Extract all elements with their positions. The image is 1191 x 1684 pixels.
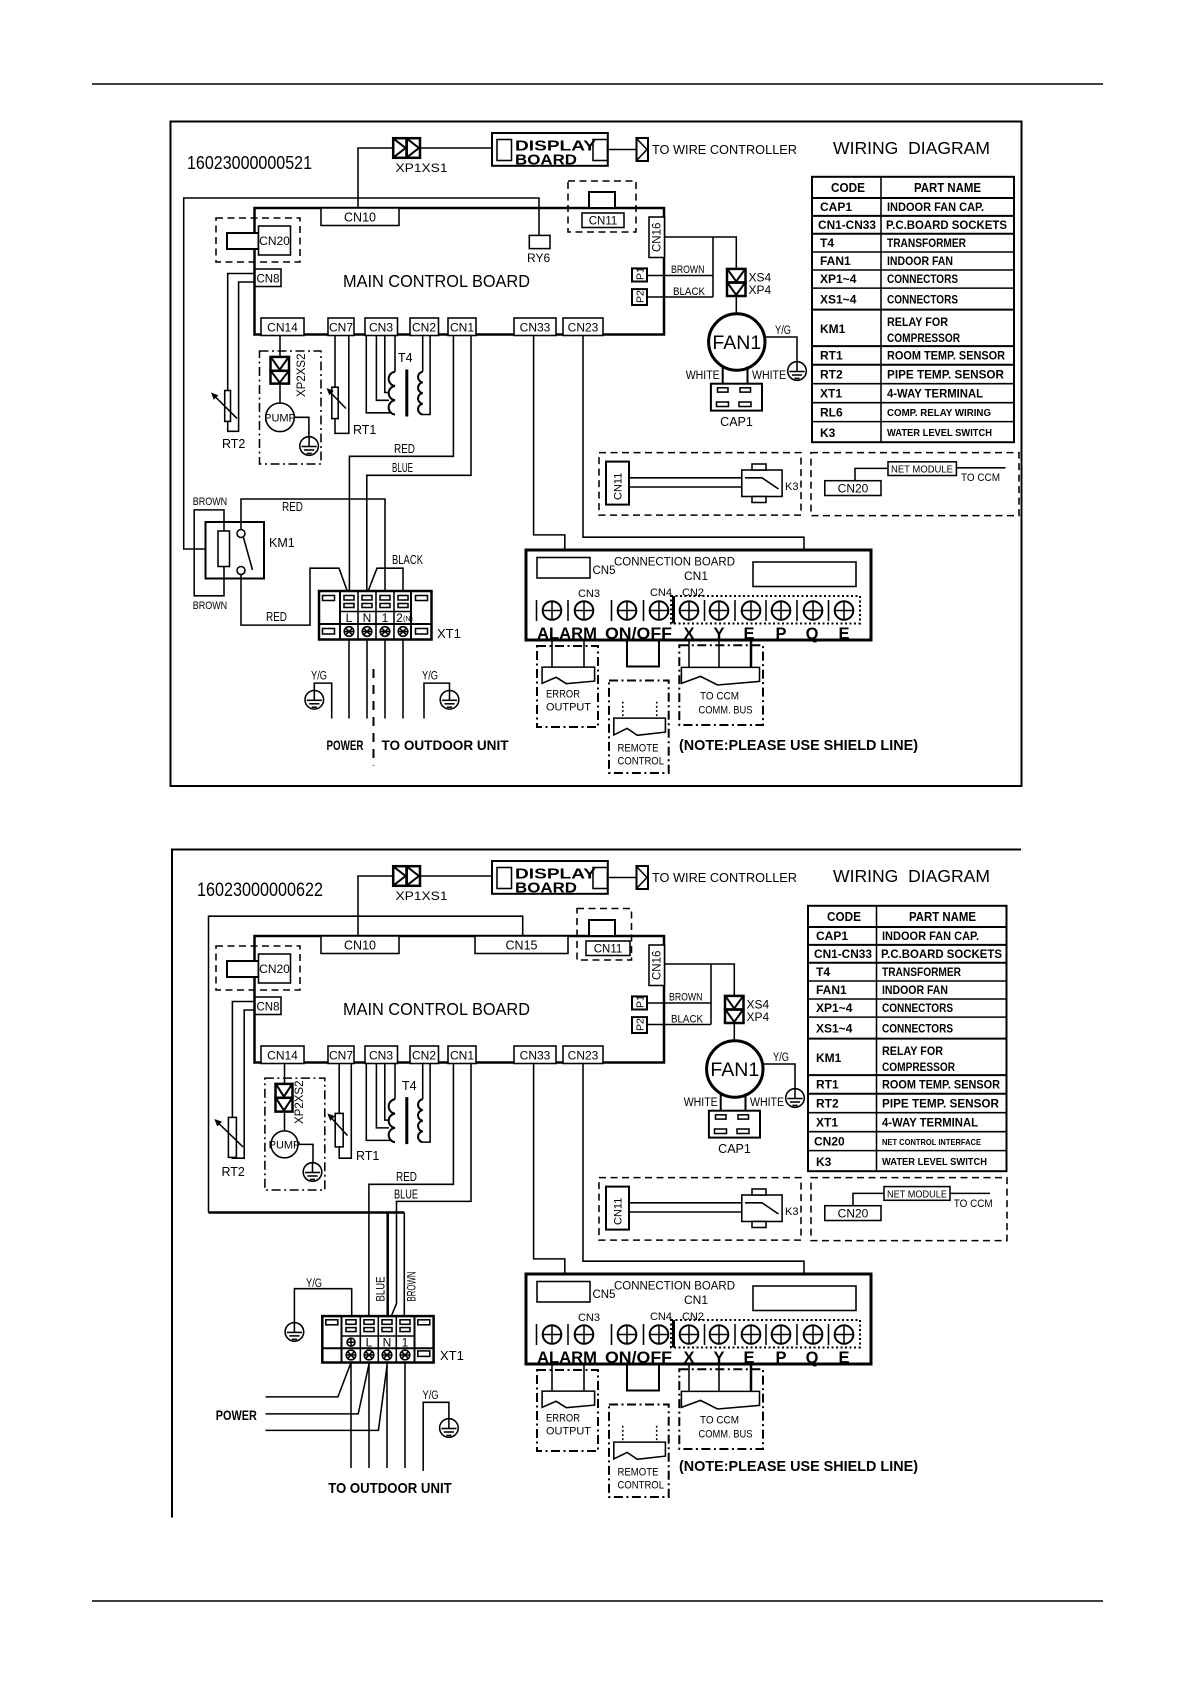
wire CN11 to K3 pin2 (2) xyxy=(629,1211,742,1213)
motor FAN1 (2) xyxy=(707,1041,763,1097)
svg-text:WHITE: WHITE xyxy=(750,1097,784,1109)
svg-text:K3: K3 xyxy=(785,1206,798,1218)
svg-text:P1: P1 xyxy=(635,267,647,280)
terminal Y (2) xyxy=(710,1325,729,1344)
svg-text:CN7: CN7 xyxy=(329,321,353,335)
wire XT1 2(N) down to outdoor unit xyxy=(402,640,404,719)
wire FAN1 to CAP1 pin1 (2) xyxy=(720,1094,722,1116)
socket CN7 xyxy=(328,318,354,336)
svg-text:16023000000521: 16023000000521 xyxy=(187,152,312,173)
svg-text:CONNECTORS: CONNECTORS xyxy=(887,293,958,307)
svg-text:XT1: XT1 xyxy=(820,387,842,401)
svg-text:ON/OFF: ON/OFF xyxy=(605,1349,672,1367)
wire CN23 to connection board CN1 xyxy=(583,336,804,562)
svg-text:CN3: CN3 xyxy=(578,588,600,600)
terminal block XT1 (2) xyxy=(322,1316,464,1363)
svg-text:XS1~4: XS1~4 xyxy=(816,1022,853,1036)
svg-text:P2: P2 xyxy=(635,1018,647,1031)
svg-text:CN2: CN2 xyxy=(412,321,436,335)
svg-text:L: L xyxy=(346,611,353,625)
water level switch K3 (2) xyxy=(742,1189,799,1228)
svg-text:CAP1: CAP1 xyxy=(816,929,848,943)
page bottom rule xyxy=(92,1600,1103,1602)
wire Y/G outdoor earth xyxy=(422,671,450,719)
svg-text:RT2: RT2 xyxy=(222,437,245,451)
net module xyxy=(888,462,956,476)
water level switch K3 xyxy=(742,464,799,503)
svg-text:Y/G: Y/G xyxy=(311,671,327,683)
wire CN16 to XS4 (2) xyxy=(665,964,735,996)
svg-text:KM1: KM1 xyxy=(820,322,846,336)
wire RED CN1 to XT1 terminal L (2) xyxy=(369,1064,454,1328)
wire XT1 N down to power xyxy=(366,640,368,719)
wire BLUE CN1 to XT1 terminal N xyxy=(367,336,471,598)
wire CN16 to XS4 xyxy=(665,237,737,269)
wire XT1 N down to outdoor xyxy=(386,1363,388,1469)
svg-text:MAIN CONTROL BOARD: MAIN CONTROL BOARD xyxy=(343,999,530,1019)
socket CN10 (2) xyxy=(321,936,399,954)
svg-text:XP1~4: XP1~4 xyxy=(820,272,857,286)
svg-text:CN5: CN5 xyxy=(593,565,616,577)
wire E down (shielded) xyxy=(750,640,753,670)
svg-text:NET MODULE: NET MODULE xyxy=(891,464,953,476)
to ccm comm bus box (2) xyxy=(679,1369,763,1449)
svg-text:1: 1 xyxy=(382,611,389,625)
svg-text:TO OUTDOOR UNIT: TO OUTDOOR UNIT xyxy=(328,1480,452,1497)
wire XP1XS1 to display board xyxy=(420,147,492,149)
thermistor RT2 xyxy=(211,391,245,452)
svg-text:4-WAY TERMINAL: 4-WAY TERMINAL xyxy=(882,1116,978,1130)
svg-text:OUTPUT: OUTPUT xyxy=(546,702,591,714)
parts table (bottom diagram) xyxy=(808,906,1007,1171)
svg-text:CODE: CODE xyxy=(831,181,865,195)
svg-text:XP2XS2: XP2XS2 xyxy=(294,1081,306,1124)
svg-text:COMPRESSOR: COMPRESSOR xyxy=(887,331,960,345)
svg-text:PART NAME: PART NAME xyxy=(914,181,981,195)
svg-text:K3: K3 xyxy=(816,1155,832,1169)
socket CN8 (2) xyxy=(255,997,281,1015)
svg-text:Q: Q xyxy=(806,625,819,643)
svg-text:TRANSFORMER: TRANSFORMER xyxy=(887,236,966,250)
wire CN3 pin3 to T4 tap xyxy=(385,336,389,393)
wire ON/OFF-2 down xyxy=(658,640,660,667)
wire XT1 1 down to outdoor xyxy=(404,1363,406,1469)
wire BLUE CN1 to XT1 terminal N (2) xyxy=(387,1064,471,1328)
svg-text:TO OUTDOOR UNIT: TO OUTDOOR UNIT xyxy=(382,737,509,753)
svg-text:RT2: RT2 xyxy=(816,1097,839,1111)
svg-text:INDOOR FAN: INDOOR FAN xyxy=(887,254,953,268)
svg-text:XT1: XT1 xyxy=(816,1116,838,1130)
svg-text:RT2: RT2 xyxy=(820,368,843,382)
wire X down xyxy=(688,640,690,667)
page top rule xyxy=(92,83,1103,85)
wire power PE diagonal xyxy=(266,1363,352,1397)
terminal P (2) xyxy=(772,1325,791,1344)
wire XP2XS2 to PUMP (2) xyxy=(284,1112,286,1132)
svg-text:1: 1 xyxy=(402,1336,409,1350)
wire CN8 to RT2 bottom xyxy=(228,282,255,431)
terminal block XT1 xyxy=(319,591,461,641)
wire N feed to XT1 terminal N xyxy=(386,1213,389,1327)
dash-dot enclosure XP2XS2/PUMP (2) xyxy=(265,1078,325,1190)
to ccm comm bus box (dash-dot) xyxy=(679,645,763,725)
wire CN8 to RT2 top xyxy=(228,274,255,391)
svg-text:BLUE: BLUE xyxy=(376,1276,388,1301)
net module (2) xyxy=(884,1187,950,1201)
diagram 2 border frame (open right/bottom) xyxy=(172,850,1021,1518)
capacitor CAP1 xyxy=(711,384,762,429)
svg-text:CAP1: CAP1 xyxy=(718,1142,751,1156)
wire FAN1 Y/G to ground (2) xyxy=(763,1052,795,1089)
socket CN3 (2) xyxy=(365,1046,398,1064)
transformer T4 xyxy=(389,351,423,417)
socket CN2 xyxy=(410,318,439,336)
wire ON/OFF-1 down (2) xyxy=(626,1364,628,1391)
svg-text:BOARD: BOARD xyxy=(515,152,577,169)
wire CN7 to RT1 top (2) xyxy=(338,1064,340,1114)
svg-text:CN1-CN33: CN1-CN33 xyxy=(814,947,872,961)
svg-text:NET CONTROL INTERFACE: NET CONTROL INTERFACE xyxy=(882,1137,981,1147)
svg-text:ERROR: ERROR xyxy=(546,689,580,701)
svg-text:CN10: CN10 xyxy=(344,939,376,953)
socket CN11 (to K3) xyxy=(606,462,629,505)
wire BROWN power feed to XT1 terminal 1 xyxy=(209,1211,405,1214)
wire Y/G outdoor earth (2) xyxy=(423,1390,449,1471)
svg-text:KM1: KM1 xyxy=(816,1051,842,1065)
terminal ON/OFF-2 (2) xyxy=(650,1325,669,1344)
terminal X xyxy=(680,601,699,620)
socket CN3 xyxy=(365,318,398,336)
wire CN20 to net module xyxy=(855,468,888,480)
svg-text:WATER LEVEL SWITCH: WATER LEVEL SWITCH xyxy=(882,1157,987,1168)
svg-text:TO CCM: TO CCM xyxy=(954,1198,993,1210)
svg-text:CN14: CN14 xyxy=(267,321,298,335)
svg-text:CN11: CN11 xyxy=(594,944,623,956)
socket CN11 (2, dashed plug area) xyxy=(577,909,632,961)
svg-text:CN20: CN20 xyxy=(838,1207,869,1221)
svg-text:CN33: CN33 xyxy=(520,321,551,335)
svg-text:4-WAY TERMINAL: 4-WAY TERMINAL xyxy=(887,387,983,401)
svg-text:TRANSFORMER: TRANSFORMER xyxy=(882,965,961,979)
connector pair XP1XS1 (2) xyxy=(393,866,448,903)
svg-text:KM1: KM1 xyxy=(269,536,295,550)
wire Y down xyxy=(718,640,720,667)
svg-text:BLACK: BLACK xyxy=(671,1014,704,1026)
connection board (2) xyxy=(526,1274,871,1364)
svg-text:ERROR: ERROR xyxy=(546,1413,580,1425)
svg-text:P: P xyxy=(775,1349,786,1367)
parts table (top diagram) xyxy=(812,177,1014,442)
dotted outline terminal group (2) xyxy=(671,1320,860,1348)
terminal ALARM-1 (2) xyxy=(543,1325,562,1344)
wire CN2 pin2 to T4 secondary bottom xyxy=(423,336,430,415)
svg-text:P1: P1 xyxy=(635,995,647,1008)
wire CN11 to K3 pin1 xyxy=(629,477,742,479)
svg-text:16023000000622: 16023000000622 xyxy=(197,880,323,901)
svg-text:CN11: CN11 xyxy=(613,473,625,500)
wire CN3 pin2 to T4 tap (2) xyxy=(376,1064,389,1128)
svg-text:Y/G: Y/G xyxy=(423,1390,439,1402)
socket CN10 xyxy=(321,208,399,226)
net module box (dashed) xyxy=(811,453,1019,516)
svg-text:RED: RED xyxy=(266,610,287,624)
socket CN11 (2, to K3) xyxy=(606,1187,629,1230)
socket CN14 xyxy=(261,318,304,336)
svg-text:K3: K3 xyxy=(785,481,798,493)
ground (power side) xyxy=(305,691,324,710)
svg-text:ALARM: ALARM xyxy=(537,1349,597,1367)
wire CN33 to CN5 xyxy=(534,336,565,558)
svg-text:CN11: CN11 xyxy=(589,216,618,228)
svg-text:RELAY FOR: RELAY FOR xyxy=(882,1044,943,1058)
wire ALARM-1 down (2) xyxy=(551,1364,553,1391)
connector to wire controller (2) xyxy=(637,866,798,889)
terminal E2 (2) xyxy=(835,1325,854,1344)
wire XP1XS1 to CN10 (2) xyxy=(358,876,393,937)
socket P1 xyxy=(632,267,647,282)
ground (pump 2) xyxy=(303,1163,322,1182)
svg-text:RELAY FOR: RELAY FOR xyxy=(887,315,948,329)
svg-text:CAP1: CAP1 xyxy=(720,415,753,429)
svg-text:RT2: RT2 xyxy=(222,1165,245,1179)
wire CN15 left routing to XT1 xyxy=(209,916,523,1212)
motor PUMP xyxy=(264,403,296,432)
wire FAN1 to CAP1 pin2 (2) xyxy=(745,1094,747,1116)
svg-text:TO CCM: TO CCM xyxy=(700,1415,739,1427)
wire E down (2) xyxy=(750,1364,753,1394)
svg-text:XP4: XP4 xyxy=(749,283,772,297)
terminal separators xyxy=(537,596,829,624)
svg-text:BROWN: BROWN xyxy=(193,600,228,612)
socket CN1 xyxy=(448,318,476,336)
wire ALARM-2 down xyxy=(583,640,585,667)
wire power N diagonal xyxy=(266,1366,388,1430)
svg-text:RED: RED xyxy=(282,500,303,514)
wire BLACK jumper N to 2(N) xyxy=(367,553,424,597)
svg-text:CN16: CN16 xyxy=(652,951,664,980)
wire CN8 to RT2 top (2) xyxy=(232,1002,255,1118)
connector to wire controller xyxy=(637,138,798,161)
svg-text:TO CCM: TO CCM xyxy=(700,691,739,703)
svg-text:CN11: CN11 xyxy=(613,1198,625,1225)
svg-text:Q: Q xyxy=(806,1349,819,1367)
svg-text:L: L xyxy=(366,1336,373,1350)
socket CN20 (dashed net-interface area) xyxy=(216,218,300,262)
wire RT1 bottom to CN7 xyxy=(335,336,349,434)
svg-text:CONTROL: CONTROL xyxy=(618,756,665,768)
svg-text:BOARD: BOARD xyxy=(515,880,577,897)
wire RY6 to KM1 coil (left routing) xyxy=(184,198,539,549)
wire Y/G power earth xyxy=(311,671,332,719)
wire KM1 coil loop (brown) xyxy=(194,510,224,596)
wire P2 BLACK xyxy=(647,286,713,298)
wire X down (2) xyxy=(688,1364,690,1391)
thermistor RT1 xyxy=(327,387,377,437)
svg-text:CN8: CN8 xyxy=(256,1002,279,1014)
remote control box (2) xyxy=(609,1405,669,1498)
svg-text:CN23: CN23 xyxy=(568,1049,599,1063)
svg-text:ROOM TEMP. SENSOR: ROOM TEMP. SENSOR xyxy=(882,1078,1000,1092)
wire junction vertical P1/P2 xyxy=(712,237,714,297)
socket CN16 (2) xyxy=(649,945,665,986)
motor PUMP (2) xyxy=(269,1131,301,1158)
relay RY6 xyxy=(527,235,550,265)
svg-text:WATER LEVEL SWITCH: WATER LEVEL SWITCH xyxy=(887,428,992,439)
svg-text:XP1XS1: XP1XS1 xyxy=(396,161,448,175)
connector pair XS4/XP4 xyxy=(727,269,772,297)
svg-text:POWER: POWER xyxy=(216,1407,257,1423)
svg-text:WHITE: WHITE xyxy=(752,370,786,382)
ground (fan 2) xyxy=(786,1089,805,1108)
svg-text:P: P xyxy=(775,625,786,643)
wire XS4 to FAN1 xyxy=(735,296,737,314)
svg-text:BLACK: BLACK xyxy=(392,553,423,567)
socket CN1 (2) xyxy=(448,1046,476,1064)
svg-text:CODE: CODE xyxy=(827,910,861,924)
svg-text:RL6: RL6 xyxy=(820,406,843,420)
wire display board to wire-controller connector (2) xyxy=(608,877,637,879)
terminal E2 xyxy=(835,601,854,620)
connector pair XS4/XP4 (2) xyxy=(725,996,770,1024)
connector pair XP2XS2 (2) xyxy=(276,1081,307,1124)
wire XP1XS1 to display board (2) xyxy=(420,875,492,877)
socket CN23 xyxy=(563,318,603,336)
socket CN20 (net) xyxy=(825,481,881,496)
svg-text:WIRING DIAGRAM: WIRING DIAGRAM xyxy=(833,138,990,158)
svg-text:CN3: CN3 xyxy=(369,1049,393,1063)
wire CN3 pin4 to T4 winding top xyxy=(394,336,396,372)
socket P2 xyxy=(632,289,647,305)
socket P2 (2) xyxy=(632,1017,647,1033)
svg-text:XS1~4: XS1~4 xyxy=(820,293,857,307)
svg-text:ALARM: ALARM xyxy=(537,625,597,643)
svg-text:MAIN CONTROL BOARD: MAIN CONTROL BOARD xyxy=(343,271,530,291)
svg-text:CN3: CN3 xyxy=(369,321,393,335)
wire CN3 pin3 to T4 tap (2) xyxy=(385,1064,389,1121)
terminal labels row (2) xyxy=(537,1349,850,1367)
svg-text:PIPE TEMP. SENSOR: PIPE TEMP. SENSOR xyxy=(882,1097,999,1111)
svg-text:BLACK: BLACK xyxy=(673,286,706,298)
net module box (2, dashed) xyxy=(811,1178,1007,1241)
ground (outdoor 2) xyxy=(440,1419,459,1438)
terminal E1 xyxy=(742,601,761,620)
wire XT1 L down to power xyxy=(348,640,350,719)
svg-text:BROWN: BROWN xyxy=(193,496,228,508)
wire XP1XS1 to CN10 xyxy=(358,148,393,209)
wire CN33 to CN5 (2) xyxy=(534,1064,565,1282)
wire RT1 bottom to CN7 (2) xyxy=(339,1064,351,1159)
svg-text:BLUE: BLUE xyxy=(392,461,413,475)
terminal labels row xyxy=(537,625,850,643)
wire CN11 to K3 pin1 (2) xyxy=(629,1202,742,1204)
svg-text:CN1: CN1 xyxy=(450,321,474,335)
svg-text:COMPRESSOR: COMPRESSOR xyxy=(882,1060,955,1074)
svg-text:CONNECTORS: CONNECTORS xyxy=(882,1022,953,1036)
terminal ALARM-1 xyxy=(543,601,562,620)
svg-text:T4: T4 xyxy=(816,965,830,979)
socket CN14 (2) xyxy=(261,1046,304,1064)
svg-text:PUMP: PUMP xyxy=(269,1140,301,1152)
svg-text:CONNECTORS: CONNECTORS xyxy=(882,1001,953,1015)
socket CN1 (connection board) xyxy=(684,562,856,587)
wire net module to CCM (2) xyxy=(950,1192,990,1194)
svg-text:E: E xyxy=(838,625,849,643)
wire ON/OFF-1 down xyxy=(626,640,628,667)
dotted outline terminal group xyxy=(671,596,860,624)
socket CN5 xyxy=(537,558,616,579)
wire P1 BROWN (2) xyxy=(647,992,711,1004)
ground (fan) xyxy=(788,362,807,381)
svg-text:COMM. BUS: COMM. BUS xyxy=(699,1429,753,1441)
svg-text:REMOTE: REMOTE xyxy=(618,1467,659,1479)
wire power L diagonal xyxy=(266,1364,370,1414)
svg-text:N: N xyxy=(363,611,372,625)
wire CN3 pin2 to T4 tap xyxy=(376,336,389,401)
socket CN5 (2) xyxy=(537,1282,616,1303)
svg-text:COMP. RELAY WIRING: COMP. RELAY WIRING xyxy=(887,408,991,419)
wire XS4 to FAN1 (2) xyxy=(733,1023,735,1041)
svg-text:CONNECTORS: CONNECTORS xyxy=(887,272,958,286)
diagram 1 border frame xyxy=(171,122,1022,787)
wire P1 BROWN xyxy=(647,264,713,276)
svg-text:CN33: CN33 xyxy=(520,1049,551,1063)
svg-text:FAN1: FAN1 xyxy=(820,254,851,268)
wire ON/OFF join bar xyxy=(626,666,660,668)
svg-text:CONNECTION BOARD: CONNECTION BOARD xyxy=(614,555,735,569)
svg-text:FAN1: FAN1 xyxy=(710,1059,759,1081)
terminal P xyxy=(772,601,791,620)
thermistor RT2 (2) xyxy=(214,1117,245,1179)
svg-text:BROWN: BROWN xyxy=(671,264,705,276)
wire ALARM-2 down (2) xyxy=(583,1364,585,1391)
transformer T4 (2) xyxy=(389,1079,423,1144)
svg-text:T4: T4 xyxy=(398,351,413,365)
svg-text:CN8: CN8 xyxy=(256,274,279,286)
wire P2 BLACK (2) xyxy=(647,1014,711,1026)
socket CN33 xyxy=(514,318,556,336)
svg-text:ROOM TEMP. SENSOR: ROOM TEMP. SENSOR xyxy=(887,349,1005,363)
svg-text:N: N xyxy=(383,1336,392,1350)
svg-text:CN2: CN2 xyxy=(412,1049,436,1063)
connection board xyxy=(526,550,871,640)
terminal ALARM-2 xyxy=(575,601,594,620)
capacitor CAP1 (2) xyxy=(709,1111,760,1156)
wire Y/G earth (left of XT1) xyxy=(294,1278,351,1323)
svg-text:FAN1: FAN1 xyxy=(816,983,847,997)
svg-text:CN20: CN20 xyxy=(814,1135,845,1149)
wire CN11 to K3 pin2 xyxy=(629,486,742,488)
wire RED CN1 to XT1 terminal L xyxy=(349,336,453,598)
svg-text:XP4: XP4 xyxy=(747,1010,770,1024)
svg-text:PIPE TEMP. SENSOR: PIPE TEMP. SENSOR xyxy=(887,368,1004,382)
svg-text:TO CCM: TO CCM xyxy=(961,472,1000,484)
wire ON/OFF join bar (2) xyxy=(626,1390,660,1392)
dash-dot enclosure XP2XS2/PUMP xyxy=(260,351,322,464)
svg-text:CN3: CN3 xyxy=(578,1312,600,1324)
svg-text:PART NAME: PART NAME xyxy=(909,910,976,924)
wire XP2XS2 to PUMP xyxy=(279,384,281,404)
terminal ON/OFF-1 (2) xyxy=(618,1325,637,1344)
svg-text:Y/G: Y/G xyxy=(773,1052,789,1064)
svg-text:Y/G: Y/G xyxy=(422,671,438,683)
svg-text:P.C.BOARD SOCKETS: P.C.BOARD SOCKETS xyxy=(881,947,1002,961)
svg-text:P.C.BOARD SOCKETS: P.C.BOARD SOCKETS xyxy=(886,218,1007,232)
svg-text:2: 2 xyxy=(396,611,403,625)
svg-text:CN10: CN10 xyxy=(344,211,376,225)
svg-text:(NOTE:PLEASE USE SHIELD LINE): (NOTE:PLEASE USE SHIELD LINE) xyxy=(679,738,918,754)
wire CN23 to connection board CN1 (2) xyxy=(583,1064,804,1286)
svg-text:CN1: CN1 xyxy=(684,1293,708,1307)
